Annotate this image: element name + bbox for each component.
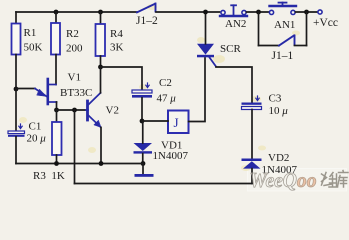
terminal +Vcc: [318, 10, 322, 14]
wire R1 top stub: [15, 12, 17, 24]
resistor R3: [52, 122, 62, 155]
wire top rail segment mid: [156, 11, 220, 13]
svg-text:AN1: AN1: [274, 19, 295, 31]
relay coil J box: [168, 111, 189, 134]
wire J1-1 bottom left: [259, 45, 280, 47]
wire C3 bottom to VD2: [251, 110, 253, 159]
svg-text:V1: V1: [68, 72, 81, 84]
node junction AN1/J1-1 right: [304, 10, 309, 15]
svg-text:VD2: VD2: [268, 152, 289, 164]
capacitor C1: [8, 131, 25, 137]
node junction AN2/J1-1: [256, 10, 261, 15]
svg-text:WeeQoo: WeeQoo: [250, 168, 317, 192]
diode VD1: [134, 121, 153, 164]
svg-text:AN2: AN2: [225, 18, 246, 30]
node dot wireA R3: [54, 161, 59, 166]
watermark backdrop: [248, 169, 347, 192]
node emitter junction: [14, 87, 19, 92]
wire R4 bottom stub: [100, 56, 102, 67]
wire R2 bottom to V1 B2: [55, 55, 57, 85]
wire R3 top stub: [56, 110, 58, 122]
wire V2 collector up: [100, 67, 102, 93]
wire x74.5 vertical to bottom rail: [74, 110, 76, 184]
svg-text:47 μ: 47 μ: [157, 93, 177, 105]
node dot R2 top: [54, 10, 59, 15]
svg-text:V2: V2: [106, 105, 119, 117]
wire SCR gate: [216, 67, 252, 103]
capacitor C2 polarity arrow: [146, 83, 149, 88]
node dot collector: [98, 65, 103, 70]
wire R3 bottom stub: [56, 155, 58, 164]
wire A bottom signal: [16, 163, 143, 165]
resistor R1: [12, 24, 21, 55]
svg-text:10 μ: 10 μ: [269, 105, 289, 117]
svg-text:+Vcc: +Vcc: [313, 17, 338, 29]
wire R1 bottom to emitter node: [15, 55, 17, 90]
node dot base wire left: [54, 108, 59, 113]
wire top rail segment between AN2 and AN1: [247, 11, 270, 13]
svg-text:50K: 50K: [24, 42, 43, 54]
wire J1-1 bottom right: [295, 45, 307, 47]
pushbutton AN1: [269, 3, 296, 15]
wire y67 to C2: [101, 67, 143, 90]
wire top rail segment right: [296, 11, 319, 13]
wire V1 B1 down: [56, 102, 58, 110]
wire base y110: [57, 109, 87, 111]
svg-text:200: 200: [66, 43, 83, 55]
resistor R4: [96, 24, 106, 56]
switch J1-2: [137, 4, 156, 13]
wire left vertical to C1: [15, 89, 17, 131]
node dot SCR anode: [203, 10, 208, 15]
wire C1 bottom: [15, 137, 17, 164]
svg-text:3K: 3K: [110, 42, 124, 54]
node dot wireA/VD1: [141, 161, 146, 166]
switch J1-1: [279, 36, 295, 46]
capacitor C1 polarity arrow: [19, 124, 22, 129]
wire top rail segment left: [16, 11, 137, 13]
transistor V2: [86, 93, 101, 128]
wire J box right to SCR cathode: [189, 58, 206, 122]
svg-text:C3: C3: [269, 93, 282, 105]
svg-text:J1–1: J1–1: [272, 50, 294, 62]
node dot base wire mid: [72, 108, 77, 113]
svg-text:C2: C2: [159, 77, 172, 89]
svg-text:1N4007: 1N4007: [153, 150, 189, 162]
watermark weiku characters: [322, 171, 349, 188]
svg-text:R2: R2: [66, 28, 79, 40]
ground bar: [135, 174, 154, 177]
capacitor C2: [132, 90, 152, 98]
transistor V1 BT33C: [35, 79, 57, 104]
pushbutton AN2: [220, 5, 247, 16]
wire C2 bottom: [141, 98, 143, 121]
svg-text:R1: R1: [24, 27, 37, 39]
node dot VD1/J: [140, 119, 145, 124]
node dot wireA V2: [99, 161, 104, 166]
svg-text:J1–2: J1–2: [136, 15, 158, 27]
capacitor C3 polarity arrow: [256, 96, 259, 101]
bottom rail: [75, 183, 253, 185]
wire V2 emitter down: [100, 127, 102, 163]
capacitor C3: [242, 103, 262, 110]
ground stub below VD1: [142, 164, 144, 175]
svg-text:C1: C1: [29, 121, 42, 133]
svg-text:SCR: SCR: [220, 43, 241, 55]
wire R2 top stub: [55, 12, 57, 23]
resistor R2: [51, 23, 60, 55]
watermark WeeQoo: [250, 168, 317, 192]
svg-text:BT33C: BT33C: [60, 87, 92, 99]
wire J1-1 right vertical: [306, 12, 308, 46]
wire J box left: [142, 120, 168, 122]
wire J1-1 left vertical: [258, 12, 260, 46]
wire R4 top stub: [100, 12, 102, 24]
diode VD2: [242, 159, 262, 184]
wire V1 emitter horizontal: [16, 88, 35, 90]
svg-text:20 μ: 20 μ: [27, 133, 47, 145]
svg-text:R4: R4: [110, 28, 123, 40]
svg-text:R3 1K: R3 1K: [33, 170, 65, 182]
thyristor SCR: [197, 12, 216, 67]
node dot R4 top: [98, 10, 103, 15]
svg-text:J: J: [174, 115, 179, 130]
